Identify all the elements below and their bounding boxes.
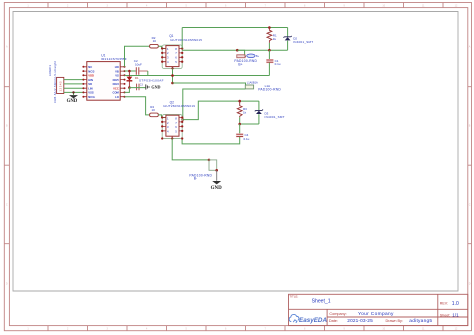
svg-text:IAUT300N10S5N015: IAUT300N10S5N015 <box>170 38 202 42</box>
svg-text:B-: B- <box>194 177 197 181</box>
node junction VB D1 <box>128 70 131 73</box>
svg-text:VCC: VCC <box>113 86 119 90</box>
transistor Q1 IAUT300N10S5N015 <box>161 34 202 69</box>
svg-text:PAD100-RND: PAD100-RND <box>258 87 281 91</box>
svg-text:VDD: VDD <box>88 74 94 78</box>
svg-text:GND: GND <box>211 186 223 191</box>
svg-text:0.1u: 0.1u <box>244 137 250 141</box>
svg-text:GND: GND <box>151 84 160 89</box>
transistor Q2 IAUT260N10S5N019 <box>161 100 195 139</box>
wire C2 right down to VS <box>147 71 149 76</box>
svg-text:C: C <box>469 204 471 207</box>
wire Q2 tab to B- <box>172 136 209 160</box>
node junction C4 top <box>238 123 241 126</box>
sheet boundary <box>13 12 458 292</box>
svg-text:10: 10 <box>153 39 157 43</box>
resistor R2 <box>150 36 159 48</box>
svg-text:EasyEDA: EasyEDA <box>299 317 327 324</box>
svg-text:SD: SD <box>88 82 92 86</box>
svg-text:Sheet_1: Sheet_1 <box>312 299 331 305</box>
wire R3 D3 bottom net <box>240 123 259 125</box>
wire C4 bottom net <box>182 137 240 144</box>
svg-text:IAUT260N10S5N019: IAUT260N10S5N019 <box>163 104 195 108</box>
svg-text:D: D <box>6 283 8 286</box>
wire R2 to Q1 gate <box>158 46 166 48</box>
svg-text:NC: NC <box>88 65 92 69</box>
svg-text:0.1u: 0.1u <box>275 62 281 66</box>
wire D1 to GND <box>125 88 146 93</box>
diode D3 1N4001 <box>255 101 285 124</box>
resistor R3 <box>237 101 247 117</box>
node junction D1 bottom <box>128 86 131 89</box>
capacitor C1 0.1u <box>266 59 281 66</box>
net label L1A0B1A <box>247 81 258 85</box>
wire top net <box>182 27 287 29</box>
IC U1 IR2110STRPBF gate driver <box>82 53 127 100</box>
wire L1A top <box>173 83 246 85</box>
svg-text:1 2 3 4 5: 1 2 3 4 5 <box>59 81 63 92</box>
svg-text:IN4001_SMT: IN4001_SMT <box>293 40 313 44</box>
ground GND at connector <box>67 91 78 104</box>
svg-text:COM: COM <box>113 91 120 95</box>
pad B- PAD100-RND <box>189 160 216 181</box>
svg-text:Date:: Date: <box>329 319 338 323</box>
wire B- to GND <box>216 170 218 181</box>
wire C4 top <box>239 124 241 134</box>
node junction pad B- <box>208 159 211 162</box>
svg-text:1k: 1k <box>273 37 277 41</box>
wire U1 HO to R2 <box>125 46 150 67</box>
wire VS net <box>125 75 270 77</box>
svg-text:NC/5: NC/5 <box>113 78 120 82</box>
ground GND at B- <box>211 181 223 191</box>
wire Q1 drain riser to top net <box>181 28 183 49</box>
svg-text:10: 10 <box>152 108 156 112</box>
wire Q1 tab to phase <box>172 67 174 83</box>
capacitor C4 0.1u <box>236 133 250 141</box>
wire C1 bottom to VS net <box>268 63 270 76</box>
connector LOGIC1 <box>48 61 64 103</box>
svg-text:Drawn By:: Drawn By: <box>386 319 404 323</box>
wire connector to U1 HIN <box>64 79 84 81</box>
wire R4 to Q2 gate <box>158 115 166 118</box>
node junction R3 top <box>238 100 241 103</box>
svg-text:IR2110STRPBF: IR2110STRPBF <box>101 57 127 61</box>
wire connector to U1 SD <box>64 83 84 85</box>
svg-text:HIN: HIN <box>88 78 93 82</box>
svg-text:VB: VB <box>115 69 119 73</box>
svg-text:LOGIC1: LOGIC1 <box>48 65 52 76</box>
wire U1 VB <box>125 70 136 72</box>
resistor R1 <box>267 28 277 43</box>
svg-text:NC/A: NC/A <box>88 95 95 99</box>
svg-text:VSS: VSS <box>88 91 94 95</box>
svg-text:REV:: REV: <box>440 301 448 305</box>
wire C1 top <box>268 50 270 60</box>
capacitor C3 <box>137 84 144 91</box>
wire connector to U1 LIN <box>64 87 84 89</box>
svg-text:C: C <box>6 204 8 207</box>
diode D1 STPS3H100AF <box>127 71 164 88</box>
svg-text:adityang5: adityang5 <box>409 318 432 324</box>
svg-text:TITLE:: TITLE: <box>289 294 298 298</box>
svg-text:B+: B+ <box>238 63 242 67</box>
diode D2 1N4001 <box>284 28 314 51</box>
wire U1 LO to R4 <box>125 97 150 115</box>
EasyEDA logo <box>289 314 327 323</box>
node junction B+ pad <box>236 49 239 52</box>
svg-text:IN4001_SMT: IN4001_SMT <box>265 115 285 119</box>
svg-text:Company:: Company: <box>329 312 346 316</box>
svg-text:GND: GND <box>67 99 78 104</box>
svg-text:LO: LO <box>115 95 119 99</box>
wire B+ net <box>182 49 287 51</box>
svg-text:D: D <box>469 283 471 286</box>
svg-text:1.0: 1.0 <box>452 301 459 307</box>
resistor R4 <box>150 105 159 117</box>
svg-text:VS: VS <box>115 74 119 78</box>
ground GND mid <box>146 84 161 89</box>
svg-text:XHB-5A(2.50mm)-5-straight: XHB-5A(2.50mm)-5-straight <box>53 61 57 103</box>
svg-text:LIN: LIN <box>88 86 92 90</box>
node junction B- bottom <box>215 169 218 172</box>
svg-text:L1A0B1A: L1A0B1A <box>247 81 258 85</box>
wire Q2 drain to R3 D3 net <box>182 101 259 120</box>
wire R3 bottom <box>239 117 241 124</box>
wire L1A bottom <box>183 89 246 120</box>
svg-text:NC/3: NC/3 <box>88 69 95 73</box>
svg-text:1/1: 1/1 <box>452 313 459 318</box>
svg-text:Sheet:: Sheet: <box>440 313 450 317</box>
wire to pad B+ <box>237 50 246 57</box>
wire R1 bottom <box>268 43 270 50</box>
svg-text:Your Company: Your Company <box>358 311 394 317</box>
svg-text:NC/3: NC/3 <box>113 82 120 86</box>
wire connector to U1 VSS <box>64 91 84 93</box>
svg-text:10uF: 10uF <box>135 62 142 66</box>
inductor L1A PAD100-RND <box>245 84 281 91</box>
svg-text:1k: 1k <box>243 111 247 115</box>
capacitor C2 10uF <box>134 59 148 75</box>
svg-text:2021-03-25: 2021-03-25 <box>347 318 373 324</box>
svg-text:STPS3H100AF: STPS3H100AF <box>139 78 164 82</box>
title block <box>289 294 468 325</box>
node junction tab L1A <box>171 82 174 85</box>
node junction C1 R1 <box>268 49 271 52</box>
node junction tab VS <box>171 74 174 77</box>
svg-text:HO: HO <box>115 65 119 69</box>
pad B+ PAD100-RND <box>234 54 259 67</box>
node junction L1A Q2 drain <box>181 118 184 121</box>
node junction top net R1 <box>268 26 271 29</box>
